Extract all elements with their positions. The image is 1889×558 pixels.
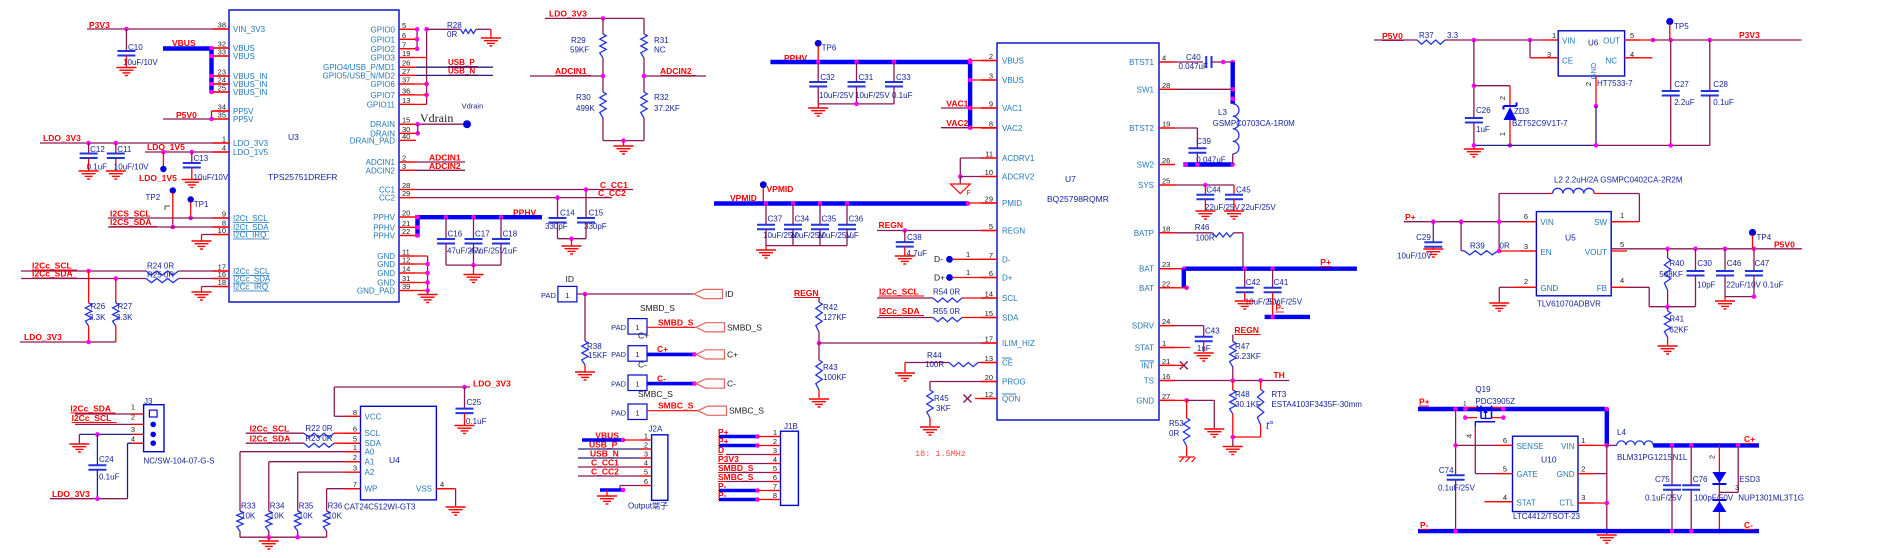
svg-text:19: 19 — [402, 49, 410, 58]
svg-text:L3: L3 — [1218, 108, 1227, 117]
svg-text:1: 1 — [1581, 436, 1585, 445]
svg-text:7: 7 — [353, 480, 357, 489]
svg-text:PAD: PAD — [611, 409, 626, 418]
svg-text:C26: C26 — [1476, 106, 1491, 115]
svg-text:P5V0: P5V0 — [1774, 240, 1795, 250]
svg-text:14: 14 — [402, 265, 410, 274]
svg-text:29: 29 — [985, 195, 993, 204]
svg-text:6: 6 — [1503, 436, 1507, 445]
svg-text:0R: 0R — [1169, 429, 1179, 438]
svg-text:5: 5 — [402, 21, 406, 30]
svg-text:REGN: REGN — [1002, 227, 1025, 236]
svg-text:C30: C30 — [1697, 259, 1712, 268]
svg-text:LTC4412/TSOT-23: LTC4412/TSOT-23 — [1513, 512, 1581, 521]
svg-text:C35: C35 — [822, 215, 837, 224]
svg-text:PAD: PAD — [611, 350, 626, 359]
svg-text:QON: QON — [1002, 395, 1020, 404]
svg-text:LDO_3V3: LDO_3V3 — [233, 139, 269, 148]
svg-text:HT7533-7: HT7533-7 — [1597, 79, 1633, 88]
svg-text:1nF: 1nF — [1197, 344, 1211, 353]
svg-text:4.7uF: 4.7uF — [907, 249, 928, 258]
svg-text:VBUS_IN: VBUS_IN — [233, 88, 267, 97]
svg-text:BATP: BATP — [1134, 229, 1154, 238]
svg-text:1: 1 — [773, 428, 777, 437]
svg-text:P3V3: P3V3 — [1739, 30, 1760, 40]
svg-text:C47: C47 — [1755, 259, 1770, 268]
svg-text:3: 3 — [773, 446, 777, 455]
svg-text:C46: C46 — [1727, 259, 1742, 268]
svg-text:TP2: TP2 — [146, 193, 161, 202]
svg-text:10uF/25V: 10uF/25V — [819, 91, 854, 100]
svg-text:2.2uF: 2.2uF — [1674, 98, 1695, 107]
svg-text:CE: CE — [1562, 57, 1573, 66]
svg-text:3: 3 — [1735, 483, 1739, 492]
svg-text:5: 5 — [1503, 465, 1507, 474]
svg-text:BQ25798RQMR: BQ25798RQMR — [1047, 194, 1109, 204]
svg-text:BTST1: BTST1 — [1129, 58, 1154, 67]
svg-text:0R: 0R — [1500, 242, 1510, 251]
svg-text:568KF: 568KF — [1659, 270, 1683, 279]
svg-text:10uF/10V: 10uF/10V — [1397, 252, 1432, 261]
svg-text:L2 2.2uH/2A GSMPC0402CA-2R2: L2 2.2uH/2A GSMPC0402CA-2R2M — [1554, 176, 1683, 185]
svg-text:R36: R36 — [328, 502, 343, 511]
svg-text:29: 29 — [402, 189, 410, 198]
svg-text:A1: A1 — [365, 458, 375, 467]
svg-text:PMID: PMID — [1002, 199, 1022, 208]
svg-text:D-: D- — [1002, 255, 1011, 264]
svg-text:GPIO6: GPIO6 — [371, 80, 396, 89]
svg-text:38: 38 — [218, 21, 226, 30]
svg-text:ZD3: ZD3 — [1514, 107, 1530, 116]
svg-text:3: 3 — [1581, 493, 1585, 502]
svg-text:22uF/25V: 22uF/25V — [1205, 203, 1240, 212]
svg-text:GPIO0: GPIO0 — [371, 25, 396, 34]
svg-text:ID: ID — [725, 289, 734, 299]
svg-text:Vdrain: Vdrain — [462, 102, 484, 111]
svg-text:8: 8 — [353, 408, 357, 417]
svg-text:STAT: STAT — [1135, 344, 1154, 353]
svg-text:100R: 100R — [1196, 234, 1215, 243]
svg-text:5: 5 — [644, 468, 648, 477]
svg-text:LDO_3V3: LDO_3V3 — [43, 133, 81, 143]
svg-text:P-: P- — [1420, 520, 1429, 530]
svg-text:EN: EN — [1540, 248, 1551, 257]
svg-text:24: 24 — [1162, 317, 1170, 326]
svg-text:ESTA4103F3435F-30mm: ESTA4103F3435F-30mm — [1271, 400, 1362, 409]
svg-text:R43: R43 — [823, 363, 838, 372]
svg-text:F: F — [967, 190, 971, 197]
svg-text:1: 1 — [222, 135, 226, 144]
svg-text:100KF: 100KF — [823, 373, 847, 382]
svg-text:37.2KF: 37.2KF — [654, 104, 680, 113]
svg-text:R47: R47 — [1235, 342, 1250, 351]
svg-text:Vdrain: Vdrain — [420, 111, 453, 125]
svg-text:3: 3 — [989, 72, 993, 81]
svg-text:DRAIN: DRAIN — [370, 120, 395, 129]
svg-text:C33: C33 — [896, 73, 911, 82]
svg-text:R46: R46 — [1195, 223, 1210, 232]
svg-text:499K: 499K — [576, 104, 595, 113]
svg-text:SMBC_S: SMBC_S — [658, 401, 694, 411]
svg-text:2: 2 — [1707, 455, 1716, 459]
svg-text:6: 6 — [353, 425, 357, 434]
svg-text:VAC2: VAC2 — [1002, 124, 1023, 133]
svg-text:C11: C11 — [117, 145, 132, 154]
svg-text:VCC: VCC — [365, 412, 382, 421]
svg-text:LDO_1V5: LDO_1V5 — [139, 173, 177, 183]
svg-text:127KF: 127KF — [823, 313, 847, 322]
svg-text:10K: 10K — [241, 512, 256, 521]
svg-text:4: 4 — [440, 480, 444, 489]
svg-text:ADCIN2: ADCIN2 — [366, 166, 396, 175]
svg-text:C34: C34 — [795, 215, 810, 224]
svg-text:PAD: PAD — [611, 380, 626, 389]
svg-text:6: 6 — [773, 473, 777, 482]
svg-text:7: 7 — [402, 40, 406, 49]
svg-text:I2Cc_IRQ: I2Cc_IRQ — [233, 283, 268, 292]
svg-text:3.3: 3.3 — [1447, 31, 1459, 40]
svg-text:2: 2 — [1581, 465, 1585, 474]
svg-text:SMBD_S: SMBD_S — [727, 322, 762, 332]
svg-text:CC2: CC2 — [379, 194, 396, 203]
svg-text:3: 3 — [402, 162, 406, 171]
svg-text:L4: L4 — [1617, 428, 1626, 437]
svg-text:C29: C29 — [1416, 233, 1431, 242]
svg-text:P+: P+ — [1419, 397, 1430, 407]
svg-text:SMBD_S: SMBD_S — [658, 318, 694, 328]
svg-text:R24 0R: R24 0R — [147, 262, 174, 271]
svg-text:I2Ct_SCL: I2Ct_SCL — [233, 214, 268, 223]
svg-text:GPIO3: GPIO3 — [371, 54, 396, 63]
svg-text:0.1uF: 0.1uF — [87, 163, 108, 172]
svg-text:BTST2: BTST2 — [1129, 124, 1154, 133]
svg-text:J1B: J1B — [784, 422, 798, 431]
svg-text:C43: C43 — [1205, 327, 1220, 336]
svg-text:R42: R42 — [823, 303, 838, 312]
svg-text:U3: U3 — [288, 132, 299, 142]
svg-text:13: 13 — [402, 96, 410, 105]
svg-text:R30: R30 — [576, 93, 591, 102]
svg-text:C17: C17 — [475, 230, 490, 239]
svg-text:SYS: SYS — [1138, 181, 1154, 190]
svg-text:J2A: J2A — [649, 425, 663, 434]
svg-text:1: 1 — [131, 403, 135, 412]
svg-text:R34: R34 — [270, 502, 285, 511]
svg-text:1uF: 1uF — [1476, 125, 1490, 134]
svg-text:10: 10 — [985, 168, 993, 177]
svg-text:R54 0R: R54 0R — [933, 288, 960, 297]
svg-text:16: 16 — [1162, 372, 1170, 381]
svg-text:20: 20 — [402, 209, 410, 218]
svg-text:3.3K: 3.3K — [89, 313, 106, 322]
svg-text:C18: C18 — [503, 230, 518, 239]
svg-text:12: 12 — [985, 390, 993, 399]
svg-text:C36: C36 — [849, 215, 864, 224]
svg-text:2: 2 — [1524, 277, 1528, 286]
svg-text:LDO_3V3: LDO_3V3 — [24, 332, 62, 342]
svg-text:GSMPC0703CA-1R0M: GSMPC0703CA-1R0M — [1213, 119, 1296, 128]
svg-text:I2Cc_SCL: I2Cc_SCL — [250, 424, 290, 434]
svg-text:10uF/25V: 10uF/25V — [855, 91, 890, 100]
svg-text:SMBD_S: SMBD_S — [640, 303, 675, 313]
svg-text:R31: R31 — [654, 36, 669, 45]
svg-text:C31: C31 — [859, 73, 874, 82]
svg-text:C74: C74 — [1439, 466, 1454, 475]
svg-text:C10: C10 — [128, 43, 143, 52]
svg-text:D-: D- — [934, 254, 943, 264]
svg-text:R35: R35 — [299, 502, 314, 511]
svg-text:C41: C41 — [1274, 278, 1289, 287]
svg-text:ID: ID — [566, 274, 575, 284]
svg-text:R22 0R: R22 0R — [305, 424, 332, 433]
svg-text:SW1: SW1 — [1137, 85, 1155, 94]
svg-text:1uF: 1uF — [504, 247, 518, 256]
svg-text:0.1uF/25V: 0.1uF/25V — [1645, 494, 1683, 503]
svg-text:SDA: SDA — [1002, 314, 1019, 323]
svg-text:VIN: VIN — [1562, 37, 1576, 46]
svg-text:3.3K: 3.3K — [116, 313, 133, 322]
svg-text:TS: TS — [1144, 377, 1154, 386]
svg-text:BZT52C9V1T-7: BZT52C9V1T-7 — [1512, 119, 1568, 128]
svg-text:R44: R44 — [927, 351, 942, 360]
svg-text:I2Cc_SCL: I2Cc_SCL — [879, 287, 919, 297]
svg-text:10uF/10V: 10uF/10V — [114, 163, 149, 172]
svg-text:t°: t° — [1266, 420, 1274, 432]
svg-text:U4: U4 — [389, 455, 400, 465]
svg-text:TP6: TP6 — [822, 44, 837, 53]
svg-text:59KF: 59KF — [570, 46, 589, 55]
svg-text:15KF: 15KF — [588, 351, 607, 360]
svg-text:9: 9 — [222, 210, 226, 219]
svg-text:A0: A0 — [365, 448, 375, 457]
svg-text:6: 6 — [1524, 212, 1528, 221]
svg-text:3: 3 — [353, 464, 357, 473]
svg-text:P+: P+ — [1320, 257, 1331, 267]
svg-text:6: 6 — [402, 31, 406, 40]
svg-text:10K: 10K — [299, 512, 314, 521]
svg-text:0.1uF: 0.1uF — [99, 473, 120, 482]
svg-text:TH: TH — [1273, 370, 1284, 380]
svg-text:GPIO2: GPIO2 — [371, 45, 396, 54]
svg-text:VIN_3V3: VIN_3V3 — [233, 25, 266, 34]
svg-text:C37: C37 — [768, 215, 783, 224]
svg-text:4: 4 — [1620, 276, 1624, 285]
svg-text:36: 36 — [402, 86, 410, 95]
svg-text:1: 1 — [644, 432, 648, 441]
svg-text:1uF: 1uF — [845, 231, 859, 240]
svg-text:U7: U7 — [1065, 174, 1076, 184]
svg-text:10K: 10K — [270, 512, 285, 521]
svg-text:VAC1: VAC1 — [1002, 104, 1023, 113]
svg-text:VBUS: VBUS — [233, 52, 255, 61]
svg-text:I2Cc_SDA: I2Cc_SDA — [70, 404, 111, 414]
svg-text:C+: C+ — [727, 349, 738, 359]
svg-text:VOUT: VOUT — [1585, 248, 1607, 257]
svg-text:1: 1 — [1463, 401, 1467, 408]
svg-text:TP4: TP4 — [1757, 233, 1772, 242]
svg-text:VSS: VSS — [416, 485, 432, 494]
svg-text:REGN: REGN — [1234, 325, 1259, 335]
svg-text:10uF/10V: 10uF/10V — [123, 58, 158, 67]
svg-text:PAD: PAD — [611, 323, 626, 332]
svg-text:6: 6 — [644, 477, 648, 486]
svg-text:0.1uF: 0.1uF — [1713, 98, 1734, 107]
svg-text:SMBC_S: SMBC_S — [638, 389, 673, 399]
svg-text:5: 5 — [989, 222, 993, 231]
svg-text:23: 23 — [1162, 260, 1170, 269]
svg-text:1: 1 — [1498, 132, 1507, 136]
svg-text:1: 1 — [1162, 339, 1166, 348]
svg-text:R32: R32 — [654, 93, 669, 102]
svg-text:2: 2 — [989, 52, 993, 61]
svg-text:C+: C+ — [1744, 434, 1755, 444]
svg-text:25: 25 — [218, 84, 226, 93]
svg-text:VBUS: VBUS — [1002, 57, 1024, 66]
svg-text:10pF: 10pF — [1697, 281, 1715, 290]
svg-text:D+: D+ — [934, 273, 945, 283]
svg-text:3KF: 3KF — [936, 404, 951, 413]
svg-text:FB: FB — [1597, 284, 1607, 293]
svg-text:15: 15 — [985, 309, 993, 318]
svg-text:R23 0R: R23 0R — [305, 434, 332, 443]
svg-text:BAT: BAT — [1139, 265, 1154, 274]
svg-text:C44: C44 — [1206, 186, 1221, 195]
svg-text:4: 4 — [773, 455, 777, 464]
svg-text:9: 9 — [989, 100, 993, 109]
svg-text:C+: C+ — [638, 331, 649, 341]
svg-text:C_CC2: C_CC2 — [591, 467, 619, 477]
svg-text:NUP1301ML3T1G: NUP1301ML3T1G — [1738, 494, 1804, 503]
svg-text:0R: 0R — [447, 30, 457, 39]
svg-text:0.1uF: 0.1uF — [466, 417, 487, 426]
svg-text:C13: C13 — [194, 154, 209, 163]
svg-text:22uF/25V: 22uF/25V — [1241, 203, 1276, 212]
svg-text:1: 1 — [1552, 31, 1556, 40]
svg-text:C76: C76 — [1693, 475, 1708, 484]
svg-text:21: 21 — [1162, 357, 1170, 366]
svg-text:33: 33 — [218, 48, 226, 57]
svg-text:C-: C- — [638, 360, 647, 370]
svg-text:2: 2 — [644, 441, 648, 450]
svg-text:22uF/10V: 22uF/10V — [1726, 281, 1761, 290]
svg-text:CTL: CTL — [1559, 499, 1575, 508]
svg-text:R25 0R: R25 0R — [147, 271, 174, 280]
svg-text:3: 3 — [1524, 242, 1528, 251]
svg-text:5: 5 — [773, 464, 777, 473]
svg-text:4: 4 — [1162, 54, 1166, 63]
svg-text:R39: R39 — [1470, 242, 1485, 251]
svg-text:SMBC_S: SMBC_S — [729, 406, 764, 416]
svg-text:R37: R37 — [1419, 31, 1434, 40]
svg-text:OUT: OUT — [1603, 37, 1620, 46]
svg-text:REGN: REGN — [794, 288, 819, 298]
svg-text:Q19: Q19 — [1475, 385, 1491, 394]
svg-text:18: 1.5MHz: 18: 1.5MHz — [915, 449, 966, 459]
svg-text:R33: R33 — [241, 502, 256, 511]
svg-text:C39: C39 — [1196, 137, 1211, 146]
svg-text:PDC3905Z: PDC3905Z — [1475, 397, 1515, 406]
svg-text:GND: GND — [1557, 470, 1575, 479]
svg-text:1: 1 — [635, 380, 639, 389]
svg-text:TPS25751DREFR: TPS25751DREFR — [268, 172, 337, 182]
svg-text:C-: C- — [727, 379, 736, 389]
svg-text:GND: GND — [1136, 396, 1154, 405]
svg-text:R26: R26 — [91, 302, 106, 311]
svg-text:Output端子: Output端子 — [628, 501, 668, 511]
svg-text:LDO_3V3: LDO_3V3 — [549, 9, 587, 19]
svg-text:ADCIN2: ADCIN2 — [660, 66, 692, 76]
svg-text:0.1uF/25V: 0.1uF/25V — [1438, 484, 1476, 493]
svg-text:I2Cc_SCL: I2Cc_SCL — [72, 413, 112, 423]
svg-text:LDO_3V3: LDO_3V3 — [52, 489, 90, 499]
svg-text:18: 18 — [1162, 224, 1170, 233]
svg-text:11: 11 — [985, 150, 993, 159]
svg-text:GPIO7: GPIO7 — [371, 91, 396, 100]
svg-text:1: 1 — [565, 291, 569, 300]
svg-text:15: 15 — [402, 116, 410, 125]
svg-text:REGN: REGN — [879, 220, 904, 230]
svg-text:PROG: PROG — [1002, 378, 1026, 387]
svg-text:7: 7 — [989, 251, 993, 260]
svg-text:R29: R29 — [571, 36, 586, 45]
svg-text:GPIO1: GPIO1 — [371, 35, 396, 44]
svg-text:R55 0R: R55 0R — [933, 307, 960, 316]
svg-text:R45: R45 — [934, 394, 949, 403]
svg-text:10uF/10V: 10uF/10V — [194, 173, 229, 182]
svg-text:13: 13 — [985, 354, 993, 363]
svg-text:C32: C32 — [820, 73, 835, 82]
svg-text:4: 4 — [644, 459, 648, 468]
svg-text:C75: C75 — [1655, 475, 1670, 484]
svg-text:35: 35 — [218, 111, 226, 120]
svg-text:C28: C28 — [1713, 80, 1728, 89]
svg-text:1: 1 — [1620, 211, 1624, 220]
svg-text:18: 18 — [218, 278, 226, 287]
svg-text:R48: R48 — [1235, 390, 1250, 399]
svg-text:14: 14 — [985, 290, 993, 299]
svg-text:ILIM_HIZ: ILIM_HIZ — [1002, 339, 1035, 348]
svg-text:U6: U6 — [1588, 39, 1599, 48]
svg-text:8: 8 — [773, 491, 777, 500]
svg-text:VIN: VIN — [1561, 442, 1575, 451]
svg-text:I2Cc_SDA: I2Cc_SDA — [32, 269, 73, 279]
svg-text:U5: U5 — [1565, 233, 1576, 243]
svg-text:62KF: 62KF — [1669, 326, 1688, 335]
svg-text:20: 20 — [985, 373, 993, 382]
svg-text:R40: R40 — [1669, 259, 1684, 268]
svg-text:GND: GND — [1540, 284, 1558, 293]
svg-text:TP1: TP1 — [194, 200, 209, 209]
svg-text:ADCIN1: ADCIN1 — [555, 66, 587, 76]
svg-text:VAC1: VAC1 — [946, 99, 968, 109]
svg-text:GND: GND — [377, 260, 395, 269]
svg-text:1: 1 — [966, 250, 970, 259]
svg-text:LDO_1V5: LDO_1V5 — [147, 142, 185, 152]
svg-text:1: 1 — [353, 443, 357, 452]
svg-text:ESD3: ESD3 — [1739, 475, 1760, 484]
svg-text:PAD: PAD — [541, 291, 556, 300]
svg-text:R27: R27 — [118, 302, 133, 311]
svg-text:47uF/25V: 47uF/25V — [470, 247, 505, 256]
svg-text:22: 22 — [402, 227, 410, 236]
svg-text:NC: NC — [1605, 57, 1617, 66]
svg-text:I2Cc_SDA: I2Cc_SDA — [250, 434, 291, 444]
svg-text:NC/SW-104-07-G-S: NC/SW-104-07-G-S — [144, 457, 215, 466]
svg-text:0.1uF: 0.1uF — [1763, 281, 1784, 290]
svg-text:4: 4 — [131, 435, 135, 444]
svg-text:SENSE: SENSE — [1517, 442, 1544, 451]
svg-text:5: 5 — [1620, 240, 1624, 249]
